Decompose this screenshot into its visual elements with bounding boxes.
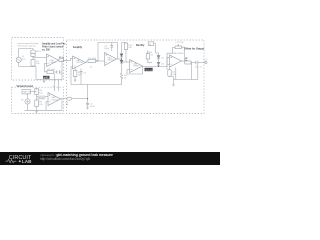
svg-text:OA5 LM358: OA5 LM358 <box>173 52 185 55</box>
svg-text:LAB: LAB <box>22 159 32 164</box>
svg-text:Amplify and Low Pas: Amplify and Low Pas <box>42 42 66 45</box>
svg-text:BAT 9V: BAT 9V <box>23 91 31 94</box>
svg-text:LM358: LM358 <box>51 100 58 102</box>
svg-text:Virtual Ground: Virtual Ground <box>17 85 34 88</box>
svg-text:Rectify: Rectify <box>136 44 145 47</box>
svg-text:out: out <box>204 58 207 61</box>
svg-text:R2 100k: R2 100k <box>47 69 56 71</box>
svg-text:LM358: LM358 <box>76 62 83 64</box>
svg-text:with the gm matching: with the gm matching <box>18 45 36 48</box>
svg-text:POT 10k: POT 10k <box>176 42 185 44</box>
svg-text:Filter / burst switch: Filter / burst switch <box>42 45 64 48</box>
svg-text:rly: rly <box>149 44 151 46</box>
svg-text:ca. 300: ca. 300 <box>42 49 50 51</box>
svg-text:rect_out: rect_out <box>145 68 153 71</box>
svg-text:LM358: LM358 <box>133 66 140 68</box>
svg-text:Vmid: Vmid <box>39 97 45 99</box>
svg-text:LM358: LM358 <box>50 62 57 64</box>
svg-text:LM358: LM358 <box>107 60 114 62</box>
svg-text:R5 100k: R5 100k <box>88 58 97 60</box>
svg-text:MIC1: MIC1 <box>36 51 42 53</box>
svg-text:Amplify: Amplify <box>73 46 83 49</box>
svg-text:Offset for Output: Offset for Output <box>184 47 204 50</box>
svg-text:http://circuitlab.com/c6sv2zw0: http://circuitlab.com/c6sv2zw0y7q4t <box>40 157 90 161</box>
